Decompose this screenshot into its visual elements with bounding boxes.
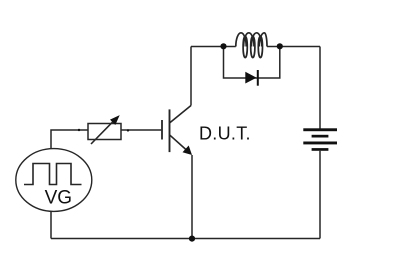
svg-text:VG: VG bbox=[45, 188, 72, 209]
svg-text:D.U.T.: D.U.T. bbox=[199, 123, 251, 143]
